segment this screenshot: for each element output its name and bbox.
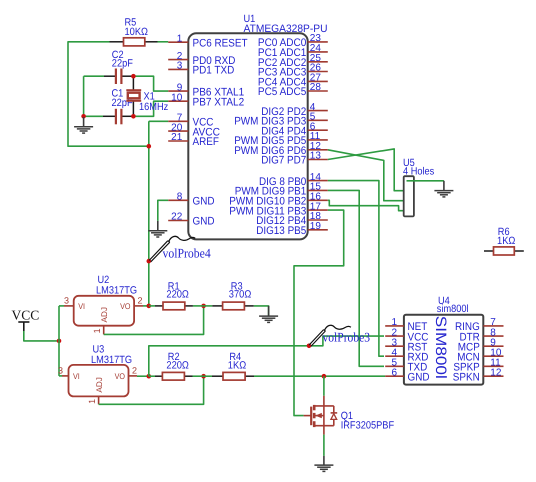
resistor R5 leads bbox=[110, 41, 158, 43]
regulator U2 pin stubs bbox=[64, 306, 143, 335]
svg-text:sim800l: sim800l bbox=[437, 303, 469, 315]
node volProbe3 junction bbox=[307, 344, 312, 349]
U1 pin 3 stub bbox=[168, 68, 188, 70]
svg-text:1KΩ: 1KΩ bbox=[228, 360, 247, 372]
U1 pin 10 number bbox=[171, 92, 183, 103]
module U4 sim800l body bbox=[404, 315, 483, 385]
U4 pin 11 number bbox=[490, 358, 501, 369]
svg-text:1: 1 bbox=[177, 33, 183, 44]
U1 pin 7 number bbox=[177, 113, 183, 124]
svg-text:DIG7 PD7: DIG7 PD7 bbox=[261, 155, 306, 167]
svg-text:LM317TG: LM317TG bbox=[91, 354, 132, 366]
U1 pin 4 stub bbox=[308, 110, 328, 112]
wire pin 8 to ground bbox=[158, 200, 168, 221]
svg-text:370Ω: 370Ω bbox=[229, 289, 252, 301]
U1 pin 14 number bbox=[310, 172, 322, 183]
U1 pin 16 name PWM DIG10 PB2 bbox=[229, 196, 306, 208]
probe volProbe3 bbox=[309, 325, 351, 346]
U1 pin 24 name PC1 ADC1 bbox=[258, 47, 306, 59]
U1 pin 12 stub bbox=[308, 149, 328, 151]
U1 pin 4 number bbox=[310, 102, 316, 113]
svg-text:1KΩ: 1KΩ bbox=[497, 235, 516, 247]
volProbe3 label bbox=[323, 330, 371, 345]
U1 pin 8 stub bbox=[168, 199, 188, 201]
wire U5 hole 1 to ground bbox=[407, 180, 444, 182]
wire R5 right lead to pin 1 bbox=[158, 41, 169, 43]
svg-text:12: 12 bbox=[490, 367, 502, 378]
svg-text:VI: VI bbox=[73, 372, 80, 381]
svg-text:SIM800l: SIM800l bbox=[432, 316, 449, 379]
X1 labels bbox=[139, 91, 168, 113]
node R5 junction bbox=[147, 144, 152, 149]
wire C1 left lead green bbox=[84, 115, 103, 117]
regulator U3 pin stubs bbox=[62, 376, 137, 404]
U1 pin 28 name PC5 ADC5 bbox=[258, 86, 306, 98]
U1 pin 12 number bbox=[310, 141, 322, 152]
svg-text:220Ω: 220Ω bbox=[166, 360, 189, 372]
U1 pin 18 name DIG12 PB4 bbox=[256, 215, 306, 227]
U1 pin 13 number bbox=[310, 151, 322, 162]
U3 labels bbox=[91, 343, 132, 366]
U1 pin 14 stub bbox=[308, 180, 328, 182]
U1 pin 9 stub bbox=[168, 90, 188, 92]
U1 pin 8 name GND bbox=[193, 196, 215, 208]
U4 pin 5 name TXD bbox=[408, 362, 428, 374]
U1 pin 5 number bbox=[310, 112, 316, 123]
U1 pin 19 stub bbox=[308, 229, 328, 231]
svg-text:8: 8 bbox=[177, 192, 183, 203]
U4 pin 7 name RING bbox=[455, 321, 480, 333]
U1 pin 2 name PD0 RXD bbox=[193, 55, 236, 67]
svg-text:10: 10 bbox=[171, 92, 183, 103]
U1 pin 28 stub bbox=[308, 90, 328, 92]
U4 pin 4 name RXD bbox=[408, 351, 429, 363]
node XTAL2 junction bbox=[131, 114, 136, 119]
U1 refdes label bbox=[244, 13, 328, 35]
R3 labels bbox=[229, 281, 252, 301]
U1 pin 16 stub bbox=[308, 199, 328, 201]
U2 inner labels bbox=[78, 302, 130, 323]
wire pin 13 to U5 hole 2 bbox=[328, 149, 409, 191]
wire R1 leads green bbox=[149, 305, 204, 307]
svg-text:AREF: AREF bbox=[193, 136, 220, 148]
U1 pin 21 stub bbox=[168, 140, 188, 142]
U1 pin 23 stub bbox=[308, 41, 328, 43]
U1 pin 20 name AVCC bbox=[193, 126, 221, 138]
wire VCC to regulators bbox=[24, 331, 59, 341]
svg-text:13: 13 bbox=[310, 151, 322, 162]
node XTAL1 junction bbox=[131, 74, 136, 79]
svg-text:6: 6 bbox=[391, 367, 397, 378]
U5 labels bbox=[403, 157, 434, 177]
regulator U2 LM317TG body bbox=[74, 296, 134, 326]
regulator U3 LM317TG body bbox=[69, 365, 129, 397]
U4 pin 1 name NET bbox=[408, 321, 428, 333]
svg-text:3: 3 bbox=[64, 296, 69, 306]
ground Q1 bbox=[314, 456, 333, 472]
wire pin 12 to U5 hole 3 bbox=[328, 150, 409, 201]
transistor Q1 drain stub bbox=[323, 396, 325, 406]
R4 labels bbox=[228, 351, 247, 371]
R6 labels bbox=[497, 226, 516, 247]
svg-text:22pF: 22pF bbox=[112, 58, 133, 70]
resistor R6 bbox=[494, 247, 515, 255]
U4 pin 1 stub bbox=[385, 325, 404, 327]
wire VCC pin 7 bbox=[149, 121, 168, 306]
svg-text:21: 21 bbox=[171, 132, 183, 143]
U1 pin 24 number bbox=[310, 43, 322, 54]
ground U5 bbox=[434, 181, 453, 197]
U1 pin 20 stub bbox=[168, 130, 188, 132]
U1 pin 10 stub bbox=[168, 100, 188, 102]
svg-text:GND: GND bbox=[408, 371, 430, 383]
resistor R4 bbox=[223, 372, 245, 380]
wire pin 14 to sim800 RXD bbox=[328, 181, 384, 357]
wire R3 left green bbox=[204, 305, 213, 307]
U1 pin 24 stub bbox=[308, 51, 328, 53]
U1 pin 26 stub bbox=[308, 71, 328, 73]
wire Q1 source to ground bbox=[323, 435, 325, 456]
svg-text:19: 19 bbox=[310, 221, 322, 232]
capacitor C2 bbox=[116, 69, 122, 85]
U4 pin 8 number bbox=[490, 327, 496, 338]
U1 pin 15 stub bbox=[308, 189, 328, 191]
VCC label bbox=[12, 308, 40, 323]
volProbe4 label bbox=[163, 245, 212, 260]
U1 pin 25 number bbox=[310, 53, 322, 64]
U4 pin 6 name GND bbox=[408, 371, 430, 383]
microcontroller U1 ATMEGA328P-PU body bbox=[188, 33, 307, 239]
U1 pin 17 stub bbox=[308, 209, 328, 211]
svg-text:10KΩ: 10KΩ bbox=[125, 26, 149, 38]
U4 pin 9 number bbox=[490, 337, 496, 348]
U1 pin 3 number bbox=[177, 61, 183, 72]
U1 pin 11 name PWM DIG5 PD5 bbox=[234, 135, 306, 147]
node Q1 drain junction bbox=[322, 374, 327, 379]
svg-text:volProbe4: volProbe4 bbox=[163, 245, 212, 260]
svg-text:PC5 ADC5: PC5 ADC5 bbox=[258, 86, 306, 98]
svg-text:2: 2 bbox=[132, 366, 137, 376]
U1 pin 8 number bbox=[177, 192, 183, 203]
crystal X1 bbox=[126, 90, 141, 101]
svg-text:LM317TG: LM317TG bbox=[96, 285, 137, 297]
U1 pin 25 name PC2 ADC2 bbox=[258, 57, 306, 69]
resistor R2 leads bbox=[155, 375, 193, 377]
ground R3 bbox=[259, 306, 278, 323]
U1 pin 7 stub bbox=[168, 120, 188, 122]
wire C2 left to ground net bbox=[84, 76, 104, 116]
U4 pin 1 number bbox=[391, 317, 397, 328]
node U2 VO junction bbox=[147, 304, 152, 309]
U1 pin 22 number bbox=[171, 212, 183, 223]
U1 pin 26 number bbox=[310, 63, 322, 74]
svg-text:3: 3 bbox=[58, 366, 63, 376]
U1 pin 4 name DIG2 PD2 bbox=[261, 106, 306, 118]
U4 pin 12 stub bbox=[483, 375, 503, 377]
svg-text:22: 22 bbox=[171, 212, 183, 223]
wire pin 16 to U5 hole 4 bbox=[328, 200, 409, 210]
svg-text:3: 3 bbox=[177, 61, 183, 72]
U1 pin 20 number bbox=[171, 122, 183, 133]
C2 labels bbox=[112, 49, 133, 70]
U4 pin 12 number bbox=[490, 367, 502, 378]
U1 pin 3 name PD1 TXD bbox=[193, 65, 235, 77]
U4 SIM800l center label bbox=[432, 316, 449, 379]
U2 labels bbox=[96, 274, 137, 297]
U1 pin 16 number bbox=[310, 192, 322, 203]
svg-text:1: 1 bbox=[87, 399, 97, 404]
wire U2 VO bbox=[143, 305, 149, 307]
probe volProbe4 bbox=[149, 236, 195, 261]
U1 pin 27 stub bbox=[308, 80, 328, 82]
U1 pin 9 number bbox=[177, 82, 183, 93]
resistor R3 leads bbox=[212, 305, 254, 307]
wire R4 to sim800 GND bbox=[254, 375, 385, 377]
svg-text:16MHz: 16MHz bbox=[139, 101, 168, 113]
svg-text:GND: GND bbox=[193, 216, 215, 228]
resistor R4 leads bbox=[212, 375, 254, 377]
U1 pin 2 stub bbox=[168, 59, 188, 61]
U4 pin 11 name SPKP bbox=[453, 362, 479, 374]
wire Q1 drain bbox=[323, 376, 325, 396]
wire XTAL1 node to pin 9 bbox=[133, 76, 168, 91]
svg-text:ADJ: ADJ bbox=[95, 377, 104, 392]
node crystal ground junction bbox=[81, 114, 86, 119]
U1 pin 5 stub bbox=[308, 119, 328, 121]
U3 inner labels bbox=[73, 372, 125, 393]
U4 pin 6 number bbox=[391, 367, 397, 378]
U1 pin 22 name GND bbox=[193, 216, 215, 228]
U2 pin numbers bbox=[64, 296, 143, 334]
svg-text:SPKN: SPKN bbox=[453, 371, 480, 383]
resistor R1 leads bbox=[155, 305, 193, 307]
U4 pin 8 name DTR bbox=[460, 331, 480, 343]
U4 pin 7 stub bbox=[483, 325, 503, 327]
U4 pin 2 stub bbox=[385, 335, 404, 337]
R2 labels bbox=[166, 351, 189, 371]
Q1 labels bbox=[341, 410, 394, 432]
U4 pin 3 name RST bbox=[408, 341, 428, 353]
U1 pin 11 stub bbox=[308, 139, 328, 141]
wire U3 VO bbox=[137, 375, 149, 377]
svg-text:PB7 XTAL2: PB7 XTAL2 bbox=[193, 96, 245, 108]
U1 pin 25 stub bbox=[308, 61, 328, 63]
svg-text:VCC: VCC bbox=[12, 308, 40, 323]
U4 pin 9 stub bbox=[483, 345, 503, 347]
resistor R3 bbox=[223, 302, 245, 310]
U1 pin 11 number bbox=[310, 131, 321, 142]
U4 pin 3 number bbox=[391, 337, 397, 348]
svg-text:28: 28 bbox=[310, 82, 322, 93]
U4 pin 10 stub bbox=[483, 355, 503, 357]
U4 pin 5 stub bbox=[385, 365, 404, 367]
svg-text:PD1 TXD: PD1 TXD bbox=[193, 65, 235, 77]
U4 pin 3 stub bbox=[385, 345, 404, 347]
U1 pin 6 stub bbox=[308, 129, 328, 131]
U4 pin 11 stub bbox=[483, 365, 503, 367]
U1 pin 7 name VCC bbox=[193, 117, 214, 129]
wire XTAL2 node to pin 10 bbox=[133, 101, 168, 116]
svg-text:VO: VO bbox=[120, 302, 130, 311]
U1 pin 23 number bbox=[310, 33, 322, 44]
wire U2 ADJ loop bbox=[104, 306, 204, 335]
U1 pin 1 name PC6 RESET bbox=[193, 37, 248, 49]
U3 pin numbers bbox=[58, 366, 137, 404]
svg-text:volProbe3: volProbe3 bbox=[323, 330, 371, 345]
wire R4 left green bbox=[204, 375, 212, 377]
svg-text:2: 2 bbox=[137, 296, 142, 306]
U4 pin 7 number bbox=[490, 317, 496, 328]
wire pin 15 to sim800 TXD bbox=[328, 190, 384, 366]
U1 pin 15 number bbox=[310, 182, 322, 193]
U4 pin 6 stub bbox=[385, 375, 404, 377]
U4 pin 9 name MCP bbox=[458, 341, 480, 353]
svg-text:220Ω: 220Ω bbox=[166, 289, 189, 301]
U1 pin 15 name PWM DIG9 PB1 bbox=[235, 186, 307, 198]
U1 pin 14 name DIG 8 PB0 bbox=[259, 176, 306, 188]
node U3 VO junction bbox=[147, 374, 152, 379]
U4 pin 4 stub bbox=[385, 355, 404, 357]
U1 pin 19 number bbox=[310, 221, 322, 232]
U4 pin 5 number bbox=[391, 358, 397, 369]
R5 labels bbox=[125, 16, 149, 38]
wire R5 to VCC net bbox=[68, 42, 149, 146]
svg-text:VO: VO bbox=[115, 372, 125, 381]
connector U5 4 Holes body bbox=[404, 176, 414, 216]
crystal X1 leads bbox=[132, 76, 134, 116]
U1 pin 18 number bbox=[310, 211, 322, 222]
wire U3 ADJ loop bbox=[99, 376, 204, 404]
U1 pin 21 number bbox=[171, 132, 183, 143]
U1 pin 23 name PC0 ADC0 bbox=[258, 37, 306, 49]
capacitor C1 leads bbox=[103, 115, 133, 117]
U4 pin 8 stub bbox=[483, 335, 503, 337]
svg-text:ADJ: ADJ bbox=[100, 307, 109, 322]
U1 pin 18 stub bbox=[308, 219, 328, 221]
U1 pin 27 name PC4 ADC4 bbox=[258, 77, 306, 89]
wire R2 leads green bbox=[149, 375, 204, 377]
U1 pin 21 name AREF bbox=[193, 136, 220, 148]
U1 pin 17 name PWM DIG11 PB3 bbox=[229, 205, 306, 217]
power VCC symbol bbox=[18, 322, 29, 331]
U1 pin 5 name PWM DIG3 PD3 bbox=[234, 116, 306, 128]
U1 pin 12 name PWM DIG6 PD6 bbox=[234, 145, 306, 157]
U1 pin 10 name PB7 XTAL2 bbox=[193, 96, 245, 108]
svg-text:4 Holes: 4 Holes bbox=[403, 165, 434, 177]
node R2 right junction bbox=[201, 374, 206, 379]
U1 pin 19 name DIG13 PB5 bbox=[256, 225, 306, 237]
U1 pin 6 name DIG4 PD4 bbox=[261, 125, 306, 137]
U4 pin 4 number bbox=[391, 347, 397, 358]
node R1 right junction bbox=[201, 304, 206, 309]
U1 pin 13 stub bbox=[308, 159, 328, 161]
C1 labels bbox=[112, 88, 133, 109]
U1 pin 28 number bbox=[310, 82, 322, 93]
U1 pin 9 name PB6 XTAL1 bbox=[193, 86, 245, 98]
capacitor C1 bbox=[116, 109, 122, 125]
resistor R1 bbox=[163, 302, 185, 310]
svg-text:PC6 RESET: PC6 RESET bbox=[193, 37, 248, 49]
resistor R6 leads bbox=[484, 250, 524, 252]
wire regulator input rail bbox=[59, 306, 64, 376]
U4 pin 10 number bbox=[490, 347, 502, 358]
U1 pin 26 name PC3 ADC3 bbox=[258, 67, 306, 79]
U1 pin 2 number bbox=[177, 51, 183, 62]
capacitor C2 leads bbox=[104, 75, 133, 77]
transistor Q1 IRF3205PBF bbox=[304, 405, 338, 427]
svg-text:VI: VI bbox=[78, 302, 85, 311]
wire R3 to ground bbox=[254, 306, 269, 316]
U1 pin 1 number bbox=[177, 33, 183, 44]
resistor R2 bbox=[162, 372, 184, 380]
wire U3 VO to sim800 VCC bbox=[149, 336, 384, 376]
U1 pin 1 stub bbox=[168, 41, 188, 43]
node volProbe4 junction bbox=[147, 259, 152, 264]
R1 labels bbox=[166, 281, 189, 301]
svg-text:GND: GND bbox=[193, 196, 215, 208]
U1 pin 27 number bbox=[310, 73, 322, 84]
U1 pin 13 name DIG7 PD7 bbox=[261, 155, 306, 167]
ground crystal bbox=[74, 117, 93, 133]
svg-text:IRF3205PBF: IRF3205PBF bbox=[341, 420, 394, 432]
U1 pin 17 number bbox=[310, 201, 322, 212]
svg-text:1: 1 bbox=[92, 328, 102, 333]
node VCC junction bbox=[57, 339, 62, 344]
svg-text:DIG13 PB5: DIG13 PB5 bbox=[256, 225, 306, 237]
U4 pin 12 name SPKN bbox=[453, 371, 480, 383]
U4 pin 10 name MCN bbox=[457, 351, 480, 363]
resistor R5 bbox=[124, 38, 145, 46]
ground pin 8 bbox=[148, 221, 167, 237]
wire pin 17 to Q1 gate bbox=[294, 210, 344, 416]
U4 labels bbox=[437, 295, 469, 315]
U4 pin 2 number bbox=[391, 327, 397, 338]
U1 pin 22 stub bbox=[168, 220, 188, 222]
transistor Q1 source stub bbox=[323, 426, 325, 435]
U1 pin 6 number bbox=[310, 121, 316, 132]
U4 pin 2 name VCC bbox=[408, 331, 429, 343]
